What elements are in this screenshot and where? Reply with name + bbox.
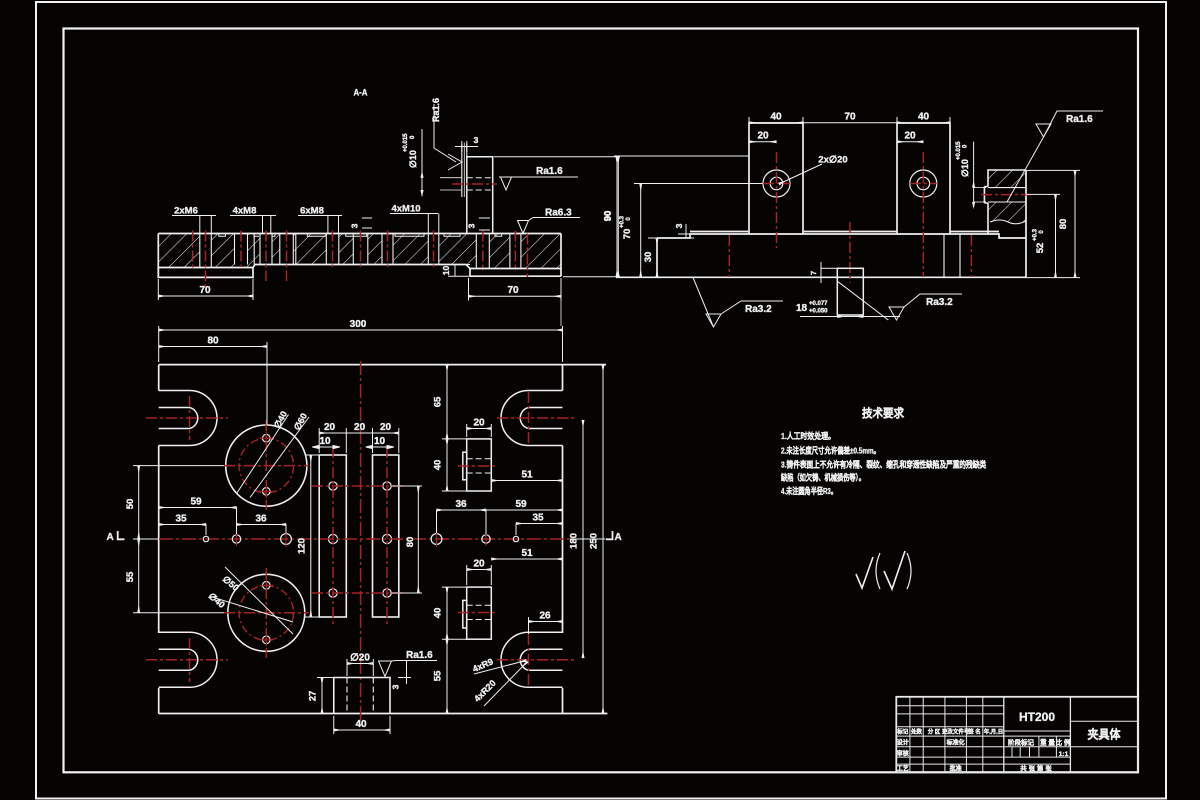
right boss — [897, 123, 950, 234]
svg-text:20: 20 — [324, 422, 336, 433]
label 4xR9 — [471, 656, 526, 674]
dim 7 tenon — [809, 262, 837, 283]
svg-text:52: 52 — [1035, 243, 1046, 254]
dim 52+0.3 right — [1026, 194, 1080, 277]
surface mark Ra1.6 plan — [379, 650, 438, 677]
svg-text:∅10: ∅10 — [408, 150, 418, 168]
T-slot groove in base — [944, 234, 960, 277]
main horizontal axis A-A — [159, 538, 570, 540]
svg-text:30: 30 — [643, 252, 654, 263]
svg-text:2.未注长度尺寸允许偏差±0.5mm。: 2.未注长度尺寸允许偏差±0.5mm。 — [781, 446, 880, 456]
section outline — [158, 234, 561, 278]
rail hole red centerlines — [312, 447, 406, 625]
bottom circle centerlines — [224, 568, 309, 658]
dims 20 on bosses — [749, 131, 923, 142]
svg-text:36: 36 — [455, 499, 467, 510]
rail right — [373, 455, 399, 617]
svg-text:59: 59 — [190, 497, 202, 508]
svg-text:2x∅20: 2x∅20 — [818, 155, 847, 166]
svg-text:4xR20: 4xR20 — [472, 678, 498, 704]
dim 55 lower — [433, 639, 448, 713]
svg-text:工艺: 工艺 — [897, 765, 909, 773]
svg-text:共 张 第 张: 共 张 第 张 — [1020, 764, 1052, 773]
svg-text:6xM8: 6xM8 — [300, 206, 324, 217]
section arrow A right — [606, 531, 622, 543]
svg-text:2xM6: 2xM6 — [174, 206, 198, 217]
dia40 dia60 leaders top — [237, 409, 309, 497]
svg-text:Ra1.6: Ra1.6 — [431, 98, 441, 122]
dim 59 right — [486, 499, 563, 510]
svg-text:1.人工时效处理。: 1.人工时效处理。 — [781, 431, 835, 441]
top dims 40 70 40 — [749, 112, 950, 124]
svg-text:重 量: 重 量 — [1040, 738, 1055, 747]
svg-text:Ra1.6: Ra1.6 — [536, 166, 563, 177]
svg-text:+0.015: +0.015 — [956, 141, 962, 160]
svg-text:50: 50 — [125, 499, 136, 510]
dim 3 boss — [391, 661, 412, 689]
plan plate outline — [159, 365, 608, 714]
surface mark Ra1.6 rotated on boss — [431, 98, 462, 170]
svg-text:分 区: 分 区 — [928, 728, 941, 736]
dim 20 upper seat — [467, 418, 492, 438]
svg-text:处数: 处数 — [910, 728, 923, 736]
HT200 cell bottom line — [1004, 730, 1071, 732]
bolt circle red top — [239, 438, 294, 493]
slot red centerlines — [146, 392, 576, 686]
hole voids in section — [200, 233, 521, 270]
hole wall lines — [200, 234, 521, 269]
svg-text:0: 0 — [410, 135, 416, 139]
dim 50 left — [125, 466, 224, 539]
svg-text:3: 3 — [674, 223, 684, 228]
svg-text:标记: 标记 — [896, 728, 909, 736]
svg-text:∅50: ∅50 — [221, 574, 241, 593]
dim 36 right — [437, 499, 487, 534]
dim 35 right — [516, 513, 563, 536]
svg-text:10: 10 — [374, 436, 386, 447]
svg-text:51: 51 — [521, 548, 533, 559]
dim 51 upper seat — [491, 470, 562, 481]
thread hole label 6xM8 — [298, 206, 342, 234]
dia10 dim on block — [956, 141, 986, 209]
svg-text:A: A — [107, 532, 114, 543]
svg-text:比 例: 比 例 — [1056, 738, 1071, 747]
svg-text:设计: 设计 — [897, 739, 909, 747]
svg-text:∅60: ∅60 — [292, 411, 309, 431]
top edge recess notches — [219, 234, 502, 237]
svg-text:+0.015: +0.015 — [403, 133, 409, 152]
red centerlines front view — [729, 152, 971, 283]
svg-text:35: 35 — [532, 513, 544, 524]
dim 27 boss — [308, 678, 335, 714]
svg-text:35: 35 — [175, 514, 187, 525]
dims 20 20 20 over rails — [319, 422, 399, 453]
svg-text:∅40: ∅40 — [207, 591, 227, 610]
dim 80 rail holes — [392, 486, 422, 593]
svg-text:Ra3.2: Ra3.2 — [745, 304, 772, 315]
small dim 3 on left tab — [350, 218, 373, 228]
svg-text:70: 70 — [844, 112, 856, 123]
svg-text:更改文件号: 更改文件号 — [942, 728, 970, 736]
dim 10 on right step — [441, 265, 470, 277]
left lower strip — [158, 268, 253, 278]
svg-text:标准化: 标准化 — [946, 739, 965, 747]
svg-text:70: 70 — [507, 285, 519, 296]
svg-text:20: 20 — [473, 418, 485, 429]
section arrow A left — [107, 531, 125, 543]
seat block lower right — [463, 587, 492, 639]
svg-text:阶段标记: 阶段标记 — [1008, 738, 1035, 747]
small dim 3 near boss — [467, 218, 491, 230]
corner slot top-left — [159, 391, 217, 446]
svg-text:20: 20 — [354, 422, 366, 433]
dim 250 right — [589, 365, 604, 714]
svg-text:3.铸件表面上不允许有冷隔、裂纹、缩孔和穿透性缺陷及严重的残: 3.铸件表面上不允许有冷隔、裂纹、缩孔和穿透性缺陷及严重的残缺类 — [781, 460, 986, 470]
svg-text:26: 26 — [539, 611, 551, 622]
svg-text:签 名: 签 名 — [967, 728, 981, 736]
locating boss on section — [440, 143, 493, 234]
dim 26 slot — [529, 611, 563, 635]
svg-text:27: 27 — [308, 691, 319, 702]
svg-text:10: 10 — [441, 266, 451, 276]
dim 65 — [433, 365, 467, 439]
svg-text:Ra1.6: Ra1.6 — [1066, 114, 1093, 125]
dim 20 lower seat — [467, 559, 492, 586]
svg-text:80: 80 — [405, 537, 416, 548]
svg-text:+0.3: +0.3 — [1033, 228, 1039, 241]
title block left grid columns — [909, 697, 911, 773]
rail left — [319, 455, 346, 617]
technical requirements heading 技术要求 — [780, 406, 986, 496]
dim 90 right of section — [494, 157, 620, 277]
svg-text:55: 55 — [125, 571, 136, 582]
svg-text:70: 70 — [622, 229, 633, 240]
surface mark Ra3.2 left — [693, 278, 783, 328]
dia10 tolerance dim — [403, 129, 424, 197]
thread hole label 4xM8 — [230, 206, 276, 234]
svg-text:300: 300 — [350, 319, 367, 330]
dim 70+0.3 left — [620, 184, 764, 278]
title block outer box — [896, 697, 1138, 773]
big boss circle top dia60 — [226, 425, 307, 506]
svg-text:+0.077: +0.077 — [809, 301, 828, 307]
dim 51 lower seat — [491, 548, 562, 559]
svg-text:+0.050: +0.050 — [809, 309, 828, 315]
dia20 dim bottom boss — [347, 653, 373, 677]
axis holes — [203, 534, 518, 545]
svg-text:夹具体: 夹具体 — [1088, 727, 1122, 742]
dim 40 lower seat — [433, 587, 467, 639]
svg-text:59: 59 — [515, 499, 527, 510]
dim 35 left — [159, 514, 206, 536]
thread hole label 4xM10 — [390, 204, 439, 234]
svg-text:18: 18 — [796, 303, 808, 314]
svg-text:40: 40 — [433, 608, 444, 619]
hatched body of section A-A — [158, 234, 561, 269]
svg-text:+0.3: +0.3 — [620, 215, 626, 228]
svg-text:∅20: ∅20 — [350, 653, 370, 664]
svg-text:7: 7 — [809, 271, 818, 275]
corner slot top-right — [501, 391, 562, 446]
svg-text:HT200: HT200 — [1019, 710, 1055, 724]
dim 90 left — [603, 156, 750, 277]
surface mark Ra1.6 top right — [1007, 111, 1103, 202]
svg-text:3: 3 — [391, 684, 401, 689]
svg-text:Ra3.2: Ra3.2 — [926, 297, 953, 308]
svg-text:∅10: ∅10 — [960, 159, 970, 177]
svg-text:36: 36 — [255, 514, 267, 525]
red centerlines of section holes — [193, 231, 528, 290]
tenon below base — [837, 268, 888, 320]
bottom center boss with dia20 hole — [334, 678, 390, 714]
svg-text:0: 0 — [626, 217, 632, 221]
svg-text:4xM10: 4xM10 — [391, 204, 420, 215]
svg-text:120: 120 — [297, 538, 308, 554]
dim 3 base step — [674, 223, 694, 238]
corner slot bottom-right — [501, 632, 563, 687]
svg-text:0: 0 — [1039, 230, 1045, 234]
dim 30 left — [643, 238, 660, 277]
dim 300 — [159, 301, 563, 363]
dim 55 left — [125, 539, 224, 613]
svg-text:技术要求: 技术要求 — [862, 406, 904, 420]
thread hole label 2xM6 — [172, 206, 216, 234]
dim 120 rails — [297, 455, 320, 617]
svg-text:10: 10 — [319, 436, 331, 447]
upright block with hatch (right) — [988, 170, 1026, 222]
svg-text:∅40: ∅40 — [272, 409, 289, 429]
title block left grid rows — [896, 705, 1004, 707]
surface mark Ra1.6 right of boss — [499, 166, 578, 190]
title block vertical split lines — [1003, 697, 1005, 773]
rail holes — [328, 482, 391, 597]
dim 59 left — [159, 497, 237, 535]
dim 3 on boss channel — [455, 135, 479, 152]
dim 80 top — [159, 336, 267, 426]
svg-text:55: 55 — [433, 670, 444, 681]
svg-text:250: 250 — [589, 533, 600, 549]
dim 18 tolerance — [796, 301, 900, 317]
svg-text:40: 40 — [433, 460, 444, 471]
svg-text:70: 70 — [199, 285, 211, 296]
dim 70 left — [158, 279, 253, 300]
left boss — [749, 123, 803, 234]
svg-text:20: 20 — [757, 131, 769, 142]
svg-text:80: 80 — [207, 336, 219, 347]
svg-text:20: 20 — [904, 131, 916, 142]
boss circle left 2x dia20 — [763, 170, 790, 197]
svg-text:40: 40 — [770, 112, 782, 123]
svg-text:0: 0 — [963, 144, 969, 148]
svg-text:Ra6.3: Ra6.3 — [545, 208, 572, 219]
svg-text:90: 90 — [603, 211, 614, 222]
svg-text:20: 20 — [380, 422, 392, 433]
svg-text:40: 40 — [918, 112, 930, 123]
small holes on bottom boss — [263, 582, 271, 590]
label 2x dia20 — [779, 155, 848, 185]
seat block upper right — [463, 439, 492, 491]
svg-text:批准: 批准 — [950, 765, 962, 773]
big boss circle bottom dia50 — [228, 574, 305, 651]
svg-text:缺陷（如欠铸、机械损伤等）。: 缺陷（如欠铸、机械损伤等）。 — [780, 473, 865, 483]
label 4xR20 — [472, 662, 528, 707]
surface mark Ra6.3 on section top — [518, 208, 581, 234]
svg-text:3: 3 — [474, 135, 479, 145]
svg-text:3: 3 — [467, 223, 477, 228]
hidden hole lines — [467, 178, 493, 190]
dim 40 upper seat — [433, 439, 467, 491]
dims 10 10 — [312, 436, 394, 449]
svg-text:1:1: 1:1 — [1059, 751, 1069, 758]
main vertical centerline — [360, 361, 362, 721]
red centerline of block hole — [981, 194, 1031, 196]
red centerline of boss hole — [452, 183, 497, 185]
boss circle right — [910, 170, 937, 197]
bolt circle red bottom — [239, 586, 294, 641]
svg-text:审核: 审核 — [897, 750, 909, 758]
dim 40 bottom — [334, 716, 390, 734]
dim 70 right — [469, 278, 562, 301]
dim 36 left — [237, 514, 287, 534]
svg-text:4.未注圆角半径R3。: 4.未注圆角半径R3。 — [781, 486, 837, 496]
svg-text:A-A: A-A — [354, 88, 368, 99]
svg-text:A: A — [615, 532, 622, 543]
svg-text:4xM8: 4xM8 — [233, 206, 257, 217]
svg-text:3: 3 — [350, 223, 360, 228]
base plate outline — [616, 123, 1026, 277]
svg-text:20: 20 — [473, 559, 485, 570]
small holes on top boss — [263, 434, 271, 442]
small cells in scale row — [1011, 747, 1013, 757]
dim 80 right — [1026, 170, 1080, 277]
slot channel in boss — [462, 144, 467, 197]
svg-text:51: 51 — [521, 470, 533, 481]
dia50 dia40 leaders bottom — [207, 567, 293, 634]
dim 180 right — [569, 420, 584, 658]
svg-text:80: 80 — [1058, 219, 1069, 230]
corner slot bottom-left — [159, 632, 217, 687]
svg-text:65: 65 — [433, 396, 444, 407]
svg-text:40: 40 — [355, 719, 367, 730]
surface mark Ra3.2 right — [889, 294, 962, 320]
overall surface finish mark — [856, 551, 911, 589]
part-name cell top line — [1070, 720, 1138, 722]
svg-text:180: 180 — [569, 533, 580, 549]
svg-text:Ra1.6: Ra1.6 — [406, 650, 433, 661]
top circle centerlines — [224, 420, 309, 510]
svg-text:年,月,日: 年,月,日 — [984, 728, 1004, 736]
right lower strip — [470, 269, 561, 277]
